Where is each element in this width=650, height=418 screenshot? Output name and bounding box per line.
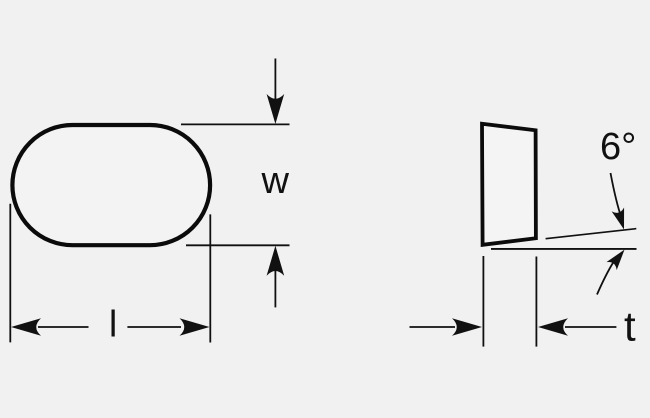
dimension t: left arrowhead (points right) [452,318,482,336]
leader arrow to baseline: shaft [597,262,614,295]
dimension t: right extension line [535,257,537,347]
dimension t: right arrow shaft [565,326,616,328]
leader arrow from 6 deg to slope line: shaft [611,173,622,218]
dimension l: right arrowhead (points right) [180,318,210,336]
dimension l: left arrow shaft [38,326,89,328]
insert top view: obround outline [12,125,210,245]
dimension l: left arrowhead (points left) [11,318,41,336]
dimension w: bottom arrow shaft [274,270,276,307]
baseline under side view [491,248,637,250]
dimension l: right arrow shaft [127,326,181,328]
dimension w: top extension tick [181,123,290,125]
dimension w: bottom extension tick [186,244,290,246]
dimension l: right extension line [209,214,211,342]
dimension t: left extension line [482,256,484,347]
leader arrow from 6 deg to slope line: head [612,208,631,232]
dimension l: left extension line [9,204,11,343]
dimension t: right arrowhead (points left) [538,318,568,336]
svg-text:w: w [261,160,290,202]
leader arrow to baseline: head [606,246,629,271]
dimension w: top arrow shaft [274,59,276,101]
dimension w: top arrowhead (points down) [267,94,285,124]
svg-text:l: l [109,303,117,344]
dimension t: left arrow shaft [410,326,456,328]
svg-text:t: t [624,303,636,350]
dimension w: bottom arrowhead (points up) [267,246,285,276]
insert side view: quadrilateral [482,124,536,245]
6 degree slope line [546,229,637,239]
svg-text:6°: 6° [600,126,636,168]
